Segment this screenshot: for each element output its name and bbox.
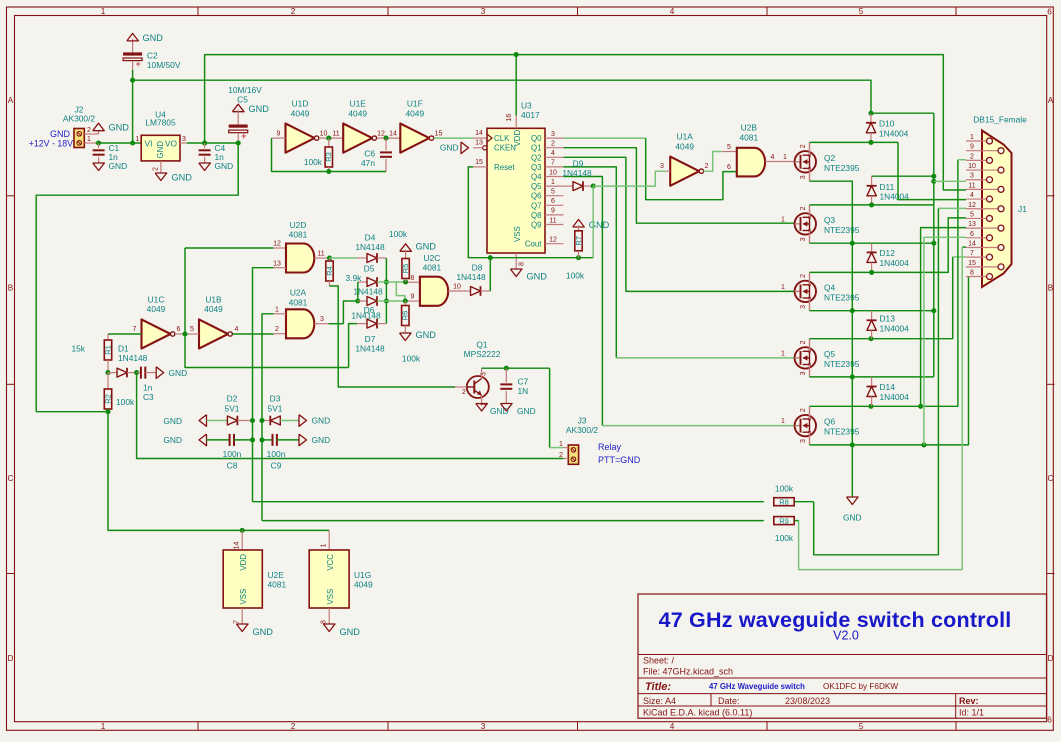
pin J1-13 [966,227,998,229]
svg-text:3: 3 [800,305,807,309]
wire U2C pin8 row [386,281,405,283]
svg-text:U2C: U2C [424,253,441,263]
svg-text:16: 16 [506,114,513,122]
svg-text:13: 13 [475,140,483,147]
svg-text:1: 1 [551,179,555,186]
AND gate U2B 4081 [737,148,765,177]
svg-text:1: 1 [559,441,563,448]
pin J1-2 [966,159,987,161]
junction U2D output node [314,257,327,259]
svg-text:5V1: 5V1 [268,403,283,413]
junction D9 output [591,184,596,189]
svg-text:GND: GND [172,173,193,183]
svg-text:Title:: Title: [645,681,671,693]
wire U2D pin13 net down to D2/C8 [253,268,274,502]
svg-text:C6: C6 [364,149,375,159]
svg-text:4049: 4049 [291,108,310,118]
svg-text:4049: 4049 [147,304,166,314]
svg-text:2: 2 [551,141,555,148]
IC U2E 4081 power [241,530,243,550]
svg-text:100k: 100k [389,229,408,239]
svg-text:U1F: U1F [407,99,423,109]
AND gate U2A 4081 [286,309,314,338]
svg-text:KiCad E.D.A. kicad (6.0.11): KiCad E.D.A. kicad (6.0.11) [643,708,752,718]
wire Q1 collector to J3 pin1 [549,368,551,447]
junction D13 anode [868,336,873,341]
wire C2 junction down to J2/VI node [132,80,134,143]
svg-text:15: 15 [968,260,976,267]
svg-text:2: 2 [275,326,279,333]
transistor Q3 NTE2395 [795,213,816,234]
svg-text:GND: GND [109,123,130,133]
pin J1-7 [966,256,987,258]
wire Q3 drain stub [809,205,811,217]
wire cathode bus jog to U2C [396,282,405,301]
svg-text:2: 2 [705,163,709,170]
svg-text:12: 12 [968,202,976,209]
svg-text:R6: R6 [401,311,410,321]
wire Q4 source rail [810,310,934,312]
svg-text:4081: 4081 [423,263,442,273]
svg-text:10: 10 [453,284,461,291]
junction pin6 riser on Q6 source [921,442,926,447]
pin J1-14 [966,246,998,248]
AND gate U2D 4081 [286,244,314,273]
svg-text:GND: GND [416,242,437,252]
diode D7 1N4148 [349,324,357,368]
svg-text:4049: 4049 [348,108,367,118]
wire Q4 net to Q6 gate [563,177,602,426]
wire Q0 net to U2B pin6 [563,137,645,139]
svg-text:11: 11 [332,130,339,137]
connector J3 AK300/2 [568,445,578,464]
svg-text:VI: VI [145,138,153,148]
diode D8 1N4148 [471,287,481,296]
svg-text:C9: C9 [271,460,282,470]
svg-text:9: 9 [277,130,281,137]
svg-text:3: 3 [182,136,186,143]
svg-text:12: 12 [549,237,557,244]
wire R4 bottom to Q1 base [330,286,456,387]
svg-text:2: 2 [800,408,807,412]
svg-text:13: 13 [968,221,976,228]
svg-text:GND: GND [527,272,548,282]
transistor Q5 NTE2395 [795,347,816,368]
svg-text:3: 3 [481,722,486,731]
svg-text:D14: D14 [880,382,896,392]
svg-text:Id: 1/1: Id: 1/1 [959,708,984,718]
svg-text:15: 15 [475,159,483,166]
U3 output pins Q0-Q9 and Cout [545,137,563,139]
svg-text:Q4: Q4 [824,282,836,292]
svg-text:1N4148: 1N4148 [118,353,148,363]
pin J1-15 [966,266,998,268]
junction D2 cathode [250,418,255,423]
svg-text:VDD: VDD [239,554,248,571]
svg-text:VO: VO [165,138,178,148]
wire +12V spine down [933,113,935,377]
junction C1 tap [96,140,101,145]
inverter U1A 4049 [670,157,699,186]
svg-text:1N4004: 1N4004 [880,392,910,402]
wire Q1 net to Q3 gate [563,148,794,224]
svg-text:2: 2 [291,722,296,731]
svg-text:1N4004: 1N4004 [880,323,910,333]
svg-text:14: 14 [475,130,483,137]
svg-text:11: 11 [549,217,556,224]
wire J1 pin6 riser [924,237,966,445]
svg-text:GND: GND [517,406,536,416]
svg-text:J1: J1 [1018,204,1027,214]
pin J1-9 [966,150,998,152]
resistor R6 100k to GND [404,301,406,306]
junction Q4 source GND spine [850,308,855,313]
svg-text:1: 1 [781,418,785,425]
svg-text:100k: 100k [775,533,794,543]
svg-text:2: 2 [87,127,91,134]
wire Q5 drain stub [809,339,811,352]
junction D8 on reset net [488,255,493,260]
svg-text:100n: 100n [223,449,242,459]
inverter U1E 4049 [343,124,372,153]
svg-text:100k: 100k [304,157,323,167]
svg-text:10: 10 [549,169,557,176]
resistor R4 3.9k [329,258,331,261]
wire GND spine to ground symbol [851,445,853,497]
svg-text:1n: 1n [143,382,153,392]
svg-text:Rev:: Rev: [959,696,979,706]
svg-text:100k: 100k [566,270,585,280]
svg-text:U1B: U1B [205,295,222,305]
svg-text:1N4148: 1N4148 [562,168,592,178]
svg-text:B: B [1048,284,1054,293]
pin U3 CKEN with GND [483,146,487,150]
svg-text:1N4148: 1N4148 [355,344,385,354]
wire U1C out to U1B in [175,333,199,335]
svg-text:6: 6 [727,164,731,171]
svg-text:J3: J3 [578,415,587,425]
svg-text:NTE2395: NTE2395 [824,163,860,173]
diode D4 1N4148 [330,257,358,259]
transistor Q1 MPS2222 [467,376,489,398]
wire +12V C2 rail [133,80,871,113]
svg-text:3: 3 [800,371,807,375]
wire U3 Reset net [468,167,593,258]
svg-text:1: 1 [101,7,106,16]
pin Q1 emitter to GND [481,396,483,404]
svg-text:D: D [8,654,14,663]
svg-text:4: 4 [670,7,675,16]
svg-text:GND: GND [109,161,128,171]
wire J1 pin3 to spine [931,179,936,184]
wire C6 bottom to feedback [329,171,386,173]
IC U1G 4049 power [328,530,330,550]
junction U1E output node [377,137,401,139]
capacitor C9 100n [262,439,273,441]
capacitor C2 [123,52,142,55]
junction Q5 source GND spine [850,374,855,379]
svg-text:PTT=GND: PTT=GND [598,455,641,465]
svg-text:1N4004: 1N4004 [879,128,909,138]
pin J1-8 [966,276,987,278]
svg-text:4081: 4081 [739,132,758,142]
capacitor C3 1n [137,372,141,374]
svg-text:1: 1 [136,136,140,143]
svg-text:U2B: U2B [741,123,758,133]
svg-text:GND: GND [163,416,182,426]
svg-text:4081: 4081 [268,580,287,590]
pin U2C output 10 [448,290,470,292]
junction C5 on +5V node [236,140,241,145]
wire U1C out down to D7 anode net [185,334,349,368]
svg-text:GND: GND [843,513,862,523]
svg-text:D1: D1 [118,344,129,354]
svg-text:3: 3 [800,439,807,443]
wire Q2 source stub [809,168,811,181]
svg-text:3: 3 [800,175,807,179]
diode D9 1N4148 [563,185,573,187]
svg-text:Q0: Q0 [531,134,542,143]
svg-text:10: 10 [968,163,976,170]
pin U2A output 3 [314,323,328,325]
svg-text:U1G: U1G [354,570,371,580]
svg-text:B: B [8,284,14,293]
wire U1A output to U2B pin5 [704,152,722,172]
resistor R7 to GND [573,220,585,228]
svg-text:GND: GND [416,330,437,340]
svg-text:4081: 4081 [289,230,308,240]
svg-text:4017: 4017 [521,110,540,120]
svg-text:D5: D5 [364,264,375,274]
svg-text:6: 6 [551,198,555,205]
svg-text:GND: GND [253,627,274,637]
junction Q3 source GND spine [850,241,855,246]
svg-text:1: 1 [87,136,91,143]
svg-text:4049: 4049 [354,580,373,590]
pin J1-11 [966,188,998,190]
svg-text:D: D [1048,654,1054,663]
svg-text:11: 11 [968,182,975,189]
wire J1 pin4 to Q2 drain [898,142,966,199]
svg-text:Size: A4: Size: A4 [643,696,676,706]
inverter U1F 4049 [400,124,429,153]
wire D10 top to +12V spine [871,112,934,114]
svg-text:12: 12 [377,130,385,137]
svg-text:3: 3 [481,7,486,16]
junction D3 cathode [259,418,264,423]
junction Q4 source spine2 [931,308,936,313]
svg-text:4049: 4049 [204,304,223,314]
wire Q2 net to Q4 gate [563,157,794,291]
wire +5V top rail [205,55,966,190]
wire C5 node down-left to R2 net [36,143,238,412]
svg-text:C8: C8 [227,460,238,470]
svg-text:5: 5 [190,326,194,333]
svg-text:4: 4 [551,150,555,157]
junction R7 on reset net [576,255,581,260]
diode D14 1N4004 [871,377,873,387]
svg-text:OK1DFC by F6DKW: OK1DFC by F6DKW [823,682,898,691]
svg-text:GND: GND [340,627,361,637]
svg-text:5: 5 [551,189,555,196]
pin U3 VSS to GND [515,253,517,269]
svg-text:8: 8 [519,262,526,266]
svg-text:1: 1 [321,543,328,547]
junction C7 tap [504,366,509,371]
svg-text:100k: 100k [775,484,794,494]
junction D14 anode [868,404,873,409]
svg-text:5: 5 [859,7,864,16]
svg-text:VCC: VCC [326,554,335,571]
svg-text:C3: C3 [143,392,154,402]
svg-text:C: C [8,474,14,483]
svg-text:+: + [135,59,140,69]
svg-text:1N4148: 1N4148 [456,272,486,282]
junction Q6 source GND spine [850,442,855,447]
svg-text:LM7805: LM7805 [145,118,176,128]
wire R2 bottom from left rail [36,411,108,413]
svg-text:D9: D9 [573,159,584,169]
svg-text:GND: GND [156,141,165,159]
svg-text:U2A: U2A [290,288,307,298]
capacitor C7 1N [505,368,507,382]
pin J2-2 to GND symbol [84,133,98,135]
svg-text:A: A [1048,96,1054,105]
svg-text:U1A: U1A [677,132,694,142]
svg-text:Relay: Relay [598,442,622,452]
svg-text:3: 3 [551,131,555,138]
svg-text:100k: 100k [402,354,421,364]
svg-text:3: 3 [970,173,974,180]
svg-text:3: 3 [660,163,664,170]
junction C2 to +12V rail [130,78,135,83]
capacitor C1 [98,143,100,148]
svg-text:14: 14 [968,240,976,247]
svg-text:Q1: Q1 [476,340,488,350]
resistor R1 15k [108,333,142,335]
svg-text:Q9: Q9 [531,221,542,230]
svg-text:R8: R8 [779,498,789,507]
power symbol GND at C2 [132,39,134,53]
svg-text:C2: C2 [147,50,158,60]
junction U2E VDD tap [240,528,245,533]
svg-text:47 GHz Waveguide switch: 47 GHz Waveguide switch [709,682,805,691]
svg-text:6: 6 [1047,8,1052,17]
svg-text:6: 6 [1047,716,1052,725]
svg-text:R4: R4 [325,266,334,276]
regulator U4 LM7805 [141,135,180,161]
svg-text:GND: GND [215,161,234,171]
svg-text:9: 9 [970,144,974,151]
svg-text:U2E: U2E [268,570,285,580]
svg-text:V2.0: V2.0 [833,629,859,643]
svg-text:1N4148: 1N4148 [355,242,385,252]
svg-text:9: 9 [551,208,555,215]
pin wire U1D input [272,137,286,139]
svg-text:10: 10 [320,130,328,137]
svg-text:1N: 1N [518,386,529,396]
svg-text:VSS: VSS [326,589,335,605]
capacitor C6 [385,138,387,150]
svg-text:7: 7 [970,250,974,257]
svg-text:VSS: VSS [239,589,248,605]
svg-text:VDD: VDD [513,130,522,147]
diode D12 1N4004 [871,243,873,252]
svg-text:2: 2 [970,153,974,160]
svg-text:4: 4 [970,192,974,199]
svg-text:4049: 4049 [675,141,694,151]
svg-text:D12: D12 [880,248,896,258]
svg-text:D4: D4 [365,233,376,243]
svg-text:Q1: Q1 [531,144,542,153]
svg-text:1: 1 [783,154,787,161]
wire Q2 source rail to GND spine [810,181,853,445]
svg-text:Q3: Q3 [531,163,542,172]
wire Q4 drain rail to pin5 riser [810,218,967,273]
svg-text:GND: GND [312,435,331,445]
svg-text:D3: D3 [270,394,281,404]
wire U1B out to U2A pin2 [233,333,274,335]
svg-text:11: 11 [317,251,324,258]
svg-text:GND: GND [249,104,270,114]
svg-text:1: 1 [101,722,106,731]
svg-text:AK300/2: AK300/2 [63,114,95,124]
connector J1 DB15_Female [982,131,1012,288]
wire PTT net C3 to J3 pin2 [137,373,564,459]
svg-text:7: 7 [551,160,555,167]
svg-text:GND: GND [169,368,188,378]
wire U2A pin1 net down to D3/C9 [262,314,274,521]
svg-text:7: 7 [133,326,137,333]
wire D4-D7 cathode bus [385,258,387,324]
svg-text:D2: D2 [227,394,238,404]
wire Q5 source rail [810,376,934,378]
wire Q4 source stub [809,298,811,311]
wire Q5 source stub [809,365,811,377]
svg-text:+12V - 18V: +12V - 18V [29,138,73,148]
svg-text:2: 2 [800,340,807,344]
svg-text:Date:: Date: [718,696,740,706]
svg-text:NTE2395: NTE2395 [824,359,860,369]
svg-text:5: 5 [970,211,974,218]
pin J1-3 [966,179,987,181]
svg-text:Q5: Q5 [531,182,542,191]
diode D6 1N4148 [343,301,357,324]
svg-text:GND: GND [312,416,331,426]
svg-text:GND: GND [589,220,610,230]
svg-text:2: 2 [152,167,159,171]
svg-text:23/08/2023: 23/08/2023 [785,696,830,706]
svg-text:+: + [241,131,246,141]
svg-text:5V1: 5V1 [225,403,240,413]
svg-text:5: 5 [727,144,731,151]
diode D5 1N4148 [358,281,367,283]
svg-text:Q4: Q4 [531,173,542,182]
svg-text:10M/50V: 10M/50V [147,60,181,70]
junction R3 bottom [326,169,331,174]
svg-text:C7: C7 [518,377,529,387]
diode D13 1N4004 [871,311,873,321]
svg-text:Sheet: /: Sheet: / [643,656,675,666]
svg-text:MPS2222: MPS2222 [464,349,501,359]
svg-text:13: 13 [273,260,281,267]
diode D1 1N4148 [108,372,117,374]
wire J1 pin14 to R9 [962,246,966,248]
wire Q6 source stub [809,432,811,445]
wire Q6 source rail to pin8 riser [810,276,969,445]
svg-text:R7: R7 [574,236,583,246]
svg-text:6: 6 [177,326,181,333]
